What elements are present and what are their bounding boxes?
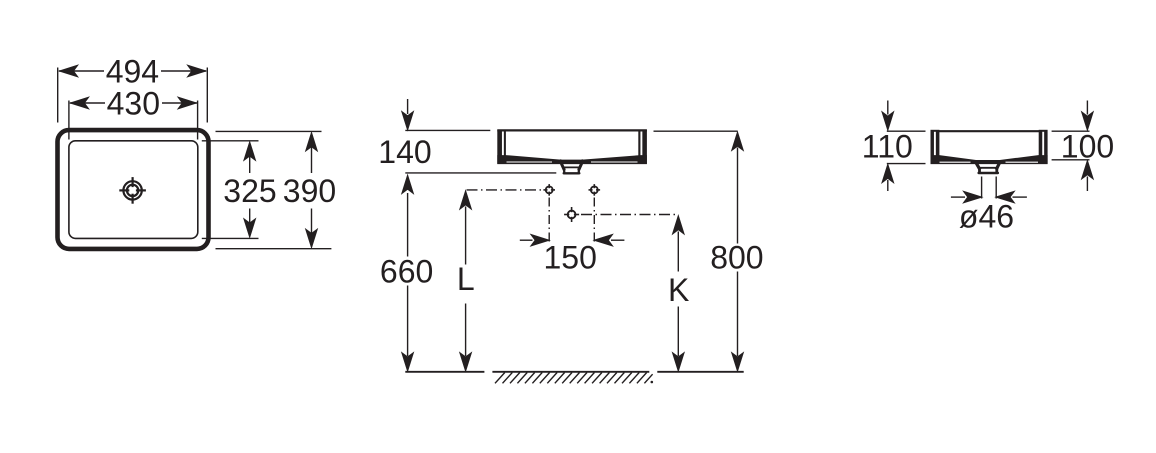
drain funnel (side view): [975, 161, 1000, 172]
extension line 390 top: [216, 130, 322, 132]
basin rim top line (front view): [497, 129, 647, 131]
extension line 494 left: [57, 68, 59, 123]
basin bottom band (side view): [931, 155, 1048, 164]
dim 150 left arrow: [520, 239, 533, 241]
extension line 494 right: [206, 68, 208, 123]
svg-text:L: L: [457, 261, 475, 297]
drain centerline to K (dash-dot): [581, 214, 679, 216]
svg-text:100: 100: [1061, 128, 1114, 164]
hole projection line right (dash-dot): [593, 198, 595, 244]
100 top reference line: [1052, 130, 1090, 132]
svg-text:K: K: [668, 272, 689, 308]
drain funnel (front view): [560, 160, 584, 173]
dim line 494: [59, 70, 104, 72]
svg-text:110: 110: [862, 129, 913, 165]
extension line 430 left: [68, 101, 70, 140]
drain crosshair (front view): [564, 207, 579, 222]
drain symbol (top view): [119, 177, 146, 204]
drain projection line left: [981, 177, 983, 199]
svg-text:ø46: ø46: [959, 198, 1014, 234]
fixing hole crosshair left: [543, 184, 555, 196]
basin rim top line (side view): [931, 130, 1047, 132]
floor hatched segment: [492, 371, 649, 373]
floor line right segment: [657, 371, 743, 373]
dim 100 arrows: [1086, 101, 1088, 115]
floor hatch strokes: [495, 373, 653, 384]
svg-text:390: 390: [283, 173, 336, 209]
svg-text:150: 150: [544, 239, 597, 275]
rim reference line left (140 top): [405, 129, 490, 131]
dim line L: [465, 207, 467, 265]
110 bottom reference line: [887, 163, 926, 165]
extension line 325 top: [202, 140, 259, 142]
basin inner bowl rim (top view): [69, 141, 198, 239]
dim ø46 right arrow: [1013, 196, 1027, 198]
svg-text:800: 800: [710, 239, 763, 275]
floor line left segment: [405, 371, 484, 373]
extension line 430 right: [197, 101, 199, 140]
basin right wall (front view): [638, 130, 647, 164]
dim 110 arrows: [887, 101, 889, 115]
basin right wall (side view): [1039, 130, 1048, 164]
hole centerline (dash-dot): [467, 189, 545, 191]
basin left wall (front view): [497, 130, 506, 164]
basin bottom band (front view): [497, 155, 647, 164]
svg-text:140: 140: [378, 134, 431, 170]
mounting reference line (140 bottom): [405, 172, 556, 174]
dim line 430: [70, 102, 105, 104]
dim ø46 left arrow: [951, 196, 965, 198]
basin outer rim (top view): [58, 130, 209, 249]
rim extension line right (800 top): [654, 130, 738, 132]
dim line K: [677, 232, 679, 272]
dim 150 right arrow: [611, 239, 624, 241]
100 bottom reference line: [1052, 159, 1090, 161]
extension line 390 bottom: [216, 248, 332, 250]
fixing hole crosshair right: [589, 184, 601, 196]
svg-text:430: 430: [107, 85, 160, 121]
drain projection line right: [995, 177, 997, 199]
hole projection line left (dash-dot): [548, 198, 550, 244]
floor hatch end dot: [651, 381, 654, 384]
svg-text:494: 494: [106, 53, 159, 89]
dim line 325: [249, 156, 251, 173]
110 top reference line: [887, 130, 926, 132]
svg-text:660: 660: [380, 254, 433, 290]
dim line 800: [737, 148, 739, 244]
dim 140 top arrow: [407, 99, 409, 114]
extension line 325 bottom: [202, 237, 259, 239]
svg-text:325: 325: [223, 173, 276, 209]
basin left wall (side view): [931, 130, 940, 164]
dim line 390: [311, 146, 313, 173]
dim line 660: [407, 193, 409, 257]
